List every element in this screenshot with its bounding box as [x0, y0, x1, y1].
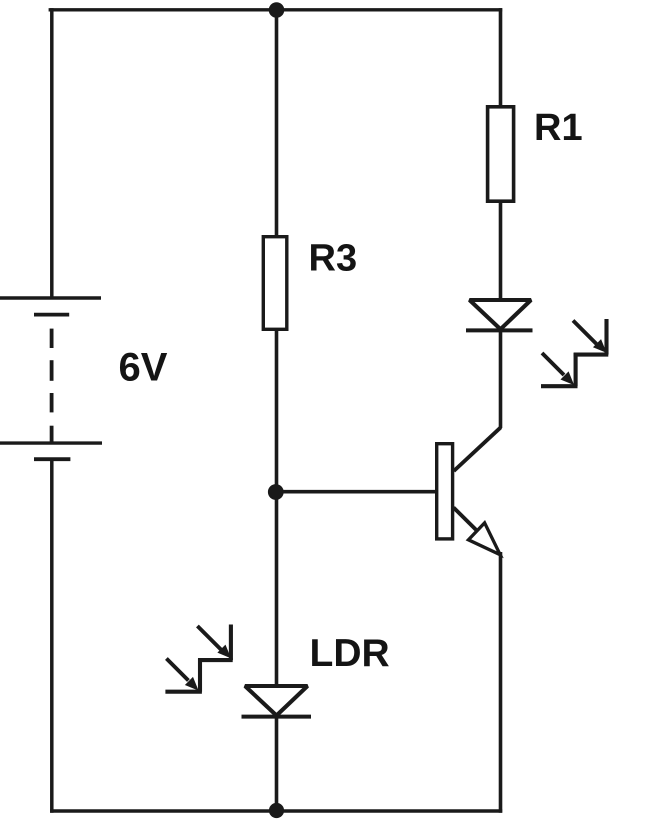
- transistor Q1 base bar: [437, 444, 453, 539]
- resistor R3: [263, 237, 287, 330]
- wire middle mid (R3 to LDR): [275, 330, 279, 687]
- LED cathode bar: [466, 328, 533, 332]
- node top junction: [269, 2, 285, 18]
- resistor R1: [488, 107, 514, 201]
- svg-text:LDR: LDR: [310, 632, 390, 675]
- wire middle upper (top rail to R3): [275, 9, 279, 237]
- wire base (junction to transistor): [276, 490, 436, 494]
- node bottom junction: [269, 803, 284, 818]
- wire left upper (battery positive feed): [50, 8, 54, 296]
- transistor Q1 collector lead: [454, 427, 501, 471]
- battery B1 (6V, two cells with dashed link): [0, 298, 102, 459]
- wire middle lower (LDR to bottom rail): [275, 717, 279, 811]
- LED D1: [470, 300, 532, 329]
- wire right (R1 to LED): [499, 200, 503, 301]
- wire right lower (emitter to bottom rail): [499, 552, 503, 813]
- svg-text:6V: 6V: [119, 346, 168, 390]
- wire right (LED cathode to collector): [499, 330, 503, 428]
- svg-text:R1: R1: [534, 107, 583, 149]
- transistor Q1 emitter lead: [454, 508, 478, 532]
- LDR light arrows: [165, 625, 232, 692]
- svg-text:R3: R3: [309, 237, 358, 279]
- wire bottom rail: [50, 809, 502, 813]
- transistor Q1 emitter arrow: [468, 523, 500, 555]
- node base junction: [268, 484, 284, 500]
- LDR cathode bar: [242, 715, 312, 719]
- LDR photodiode symbol: [245, 686, 308, 716]
- wire right upper (top rail to R1): [499, 8, 503, 106]
- wire left lower (battery negative to bottom rail): [50, 459, 54, 813]
- LED light arrows: [541, 319, 608, 386]
- wire top rail: [49, 8, 503, 11]
